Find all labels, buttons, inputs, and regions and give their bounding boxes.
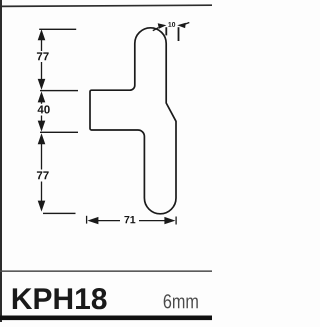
left border line: [0, 0, 2, 322]
extension line top (A): [39, 29, 76, 30]
horizontal dimension 71 (bottom): [87, 216, 177, 225]
vertical dimension 40 (middle segment): [41, 102, 43, 121]
dimension 10 (top): [153, 23, 190, 42]
key profile outline: [90, 28, 176, 214]
extension line at arm bottom (C): [40, 132, 78, 133]
vertical dimension 77 (top segment): [41, 40, 43, 80]
extension line at arm top (B): [40, 90, 78, 91]
separator line above footer: [0, 270, 212, 272]
footer size text 6mm: [164, 294, 198, 308]
right arrow tail: [184, 23, 189, 25]
footer product code text KPH18: [13, 288, 107, 309]
top border line: [0, 5, 212, 6]
extension line 2: [178, 27, 180, 41]
vertical dimension 77 (bottom segment): [41, 144, 43, 202]
extension line 1: [165, 27, 167, 35]
bottom black bar: [0, 316, 212, 321]
left arrow tail: [153, 28, 159, 31]
extension line bottom (D): [43, 213, 76, 214]
